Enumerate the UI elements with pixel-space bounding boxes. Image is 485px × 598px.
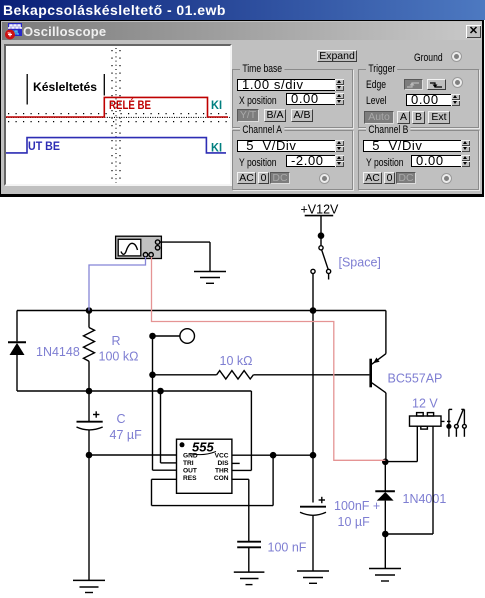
wire VCC pin to main vertical [232,454,313,456]
svg-text:1N4148: 1N4148 [36,345,80,359]
wire OUT to 555 OUT pin [153,469,177,471]
wire to connector [153,335,180,337]
svg-text:GND: GND [183,453,198,460]
svg-text:KI: KI [211,100,222,112]
blue trace channel [6,138,226,153]
diode D1 1N4148 [8,342,26,391]
blue probe wire [89,257,146,311]
svg-text:10 µF: 10 µF [338,515,371,529]
node OUT / 10k [149,372,156,379]
svg-text:C: C [117,412,126,426]
wire diode branch upper [16,311,18,342]
svg-text:Késleltetés: Késleltetés [33,80,97,94]
IC U1 555 timer [177,439,232,493]
node diode / relay return [382,531,389,538]
switch S1 [Space] [311,246,331,280]
relay K1 coil 12V [385,413,441,534]
node bottom bus / TRI [157,388,164,395]
ground under C [73,580,105,592]
svg-text:+V12V: +V12V [301,203,340,217]
svg-text:12 V: 12 V [412,397,438,411]
Channel A group [232,130,353,190]
red probe wire [152,257,386,460]
svg-text:100nF +: 100nF + [334,499,380,513]
node top bus / switch [310,307,317,314]
wire CON pin [232,479,249,541]
svg-text:100 nF: 100 nF [268,541,307,555]
resistor R 100 kOhm [84,311,95,392]
svg-text:TRI: TRI [183,460,194,467]
oscilloscope window [0,20,484,197]
wire switch to top bus [312,274,314,311]
svg-text:DIS: DIS [218,460,230,467]
svg-text:47 µF: 47 µF [110,428,143,442]
power source +V12V [301,203,340,234]
svg-text:VCC: VCC [215,453,229,460]
capacitor C 47uF [77,391,103,455]
svg-text:1N4001: 1N4001 [403,492,447,506]
sparse dot column right of axis [119,50,121,183]
connector node (open circle) [180,329,195,344]
capacitor 100nF [237,542,261,572]
svg-text:CON: CON [214,475,229,482]
wire source node to switch [320,236,322,246]
wire bottom bus [17,390,251,392]
sparse dot row below axis [8,121,230,123]
marker line left [26,74,28,105]
svg-text:10 kΩ: 10 kΩ [220,354,253,368]
wire cap node to 555 GND pin [89,454,177,456]
horizontal dotted axis dense [6,116,230,118]
svg-text:BC557AP: BC557AP [388,372,443,386]
marker line right [103,74,105,96]
svg-text:[Space]: [Space] [339,256,381,270]
wire OUT vertical [152,336,154,470]
Trigger group [358,69,479,128]
wire THR pin [232,391,252,470]
svg-text:RELÉ BE: RELÉ BE [109,97,151,112]
wire main vertical (switch to VCC node to 10uF) [312,311,314,503]
node VCC / main vertical [310,452,317,459]
wire node to ground [384,534,386,569]
resistor 10 kOhm [153,371,370,379]
wire cap node down to ground [88,455,90,580]
diode D2 1N4001 [375,462,395,534]
Channel B group [358,130,479,190]
capacitor 100nF + 10uF [300,497,326,571]
relay contacts [447,409,466,436]
window icon [5,23,23,40]
Time base group [232,69,353,128]
wire TRI pin [161,391,177,463]
node VCC / RES return [270,452,277,459]
svg-text:100 kΩ: 100 kΩ [99,350,139,364]
node collector / relay / diode [382,459,389,466]
node between source and switch [318,232,325,239]
wire RES pin loop [152,455,274,505]
vertical dotted axis [115,48,117,183]
node cap / gnd wire [86,452,93,459]
node bottom bus / cap [86,388,93,395]
transistor Q1 BC557AP [371,311,386,462]
svg-text:R: R [112,334,121,348]
svg-text:RES: RES [183,475,197,482]
main window title bar [0,0,485,20]
node top bus / blue probe [86,307,93,314]
svg-text:KI: KI [211,143,222,155]
sparse dot column left of axis [111,50,113,183]
wire scope to ground [160,242,210,271]
ground under 100nF [234,572,265,585]
wire DIS stub [232,462,240,464]
relay linkage dashes [441,420,453,422]
svg-text:THR: THR [215,468,229,475]
sparse dot row above axis [8,113,230,115]
red trace channel [6,97,228,117]
ground at scope [194,272,226,284]
node OUT net / connector stub [149,333,156,340]
svg-text:OUT: OUT [183,468,197,475]
svg-text:UT BE: UT BE [28,139,60,153]
wire top bus [17,310,386,312]
ground under relay [369,569,401,582]
ground under 10uF [297,571,329,583]
oscilloscope icon [116,236,162,258]
